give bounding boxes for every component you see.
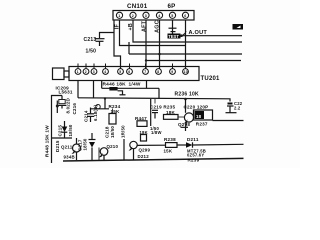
ground bbox=[181, 126, 189, 128]
junction dot A.OUT bbox=[180, 34, 183, 37]
svg-text:C218: C218 bbox=[105, 126, 110, 138]
transistor Q211 bbox=[73, 144, 81, 152]
svg-text:CN101: CN101 bbox=[127, 3, 148, 10]
wire bus A.OUT y35.5 bbox=[182, 35, 243, 37]
svg-text:1: 1 bbox=[77, 70, 79, 74]
wire pin5 to test point bbox=[172, 20, 174, 33]
resistor R235 bbox=[164, 115, 179, 120]
label 1/50 1/8W bbox=[150, 126, 162, 135]
junction R236 bus bbox=[184, 98, 187, 101]
tuner TU201 box bbox=[69, 67, 199, 81]
label IC209 L5631 bbox=[56, 86, 73, 95]
svg-text:6: 6 bbox=[128, 70, 130, 74]
label MTZ7.5B 0Z57.6Y bbox=[187, 149, 206, 158]
transistor Q210 bbox=[100, 148, 108, 156]
capacitor C213 bbox=[95, 38, 105, 40]
net label AGC bbox=[155, 20, 161, 33]
wire bus y60.5 bbox=[146, 60, 241, 62]
svg-text:C220 120P: C220 120P bbox=[184, 105, 209, 110]
wire bus y120.5 bbox=[213, 120, 244, 122]
connector mark (black) top right bbox=[233, 24, 244, 30]
svg-text:8.022D: 8.022D bbox=[66, 98, 71, 113]
transistor Q299 bbox=[130, 141, 137, 148]
svg-text:D212: D212 bbox=[138, 154, 150, 159]
label 6.18B vertical bbox=[93, 105, 98, 121]
resistor R446 bbox=[109, 87, 117, 91]
svg-text:D211: D211 bbox=[187, 137, 199, 142]
label Q210 bbox=[107, 144, 119, 149]
wire x124 bbox=[123, 139, 125, 160]
svg-text:6P: 6P bbox=[168, 3, 176, 10]
junction pin4 bus bbox=[158, 53, 161, 56]
svg-text:1R/50: 1R/50 bbox=[121, 125, 126, 138]
wire pin1 bus y45.5 bbox=[120, 20, 186, 45]
net label +B bbox=[128, 23, 134, 30]
net label IF bbox=[115, 23, 121, 29]
svg-text:1/4W: 1/4W bbox=[129, 82, 141, 88]
tuner pin stubs bbox=[78, 64, 173, 69]
svg-text:4: 4 bbox=[158, 14, 160, 18]
wire Q208 to ground bbox=[186, 122, 187, 128]
svg-text:R237: R237 bbox=[196, 122, 208, 127]
label 18K bbox=[166, 110, 176, 115]
label R348 bbox=[64, 155, 75, 160]
pin 3 bbox=[143, 12, 149, 18]
label Q211 bbox=[61, 145, 73, 150]
svg-text:A.OUT: A.OUT bbox=[189, 30, 208, 36]
wire R234 to bus bbox=[104, 99, 106, 109]
capacitor C222 bbox=[228, 103, 233, 105]
svg-text:5: 5 bbox=[171, 14, 173, 18]
svg-text:Q208: Q208 bbox=[178, 122, 190, 127]
svg-text:18/50: 18/50 bbox=[83, 138, 88, 150]
junction at pin3 bus bbox=[145, 59, 147, 61]
wire y138 bbox=[52, 137, 73, 139]
wire left column bbox=[52, 96, 63, 164]
svg-text:C213: C213 bbox=[84, 37, 97, 43]
wire pin1 branch down to tuner bbox=[114, 20, 121, 69]
wire pin4 down to tuner bbox=[159, 20, 161, 69]
resistor R447 bbox=[137, 121, 147, 127]
svg-text:3: 3 bbox=[93, 70, 95, 74]
svg-text:C219 R235: C219 R235 bbox=[150, 105, 175, 110]
label A.OUT bbox=[189, 30, 208, 36]
svg-text:Q210: Q210 bbox=[107, 144, 119, 149]
small device node bbox=[96, 105, 100, 109]
jack box R237 bbox=[194, 110, 213, 120]
test point bar bbox=[169, 27, 177, 29]
wire bus y145 right bbox=[193, 143, 244, 146]
pin 6 bbox=[182, 12, 188, 18]
transistor Q208 bbox=[184, 113, 193, 122]
svg-text:18: 18 bbox=[196, 114, 202, 119]
svg-text:Q211: Q211 bbox=[61, 145, 73, 150]
svg-text:934B: 934B bbox=[64, 155, 75, 160]
capacitor C216 bbox=[61, 96, 63, 100]
diode D215 symbol bbox=[64, 121, 66, 127]
svg-text:10: 10 bbox=[184, 70, 188, 74]
wire branch bbox=[150, 99, 152, 126]
wire bus R236 y98.5 bbox=[78, 98, 230, 102]
svg-text:2.2: 2.2 bbox=[234, 106, 241, 111]
antenna jack nub bbox=[64, 71, 69, 77]
svg-text:9: 9 bbox=[171, 70, 173, 74]
pin 5 bbox=[169, 12, 175, 18]
capacitor C219 bbox=[154, 99, 156, 104]
wire bbox=[177, 144, 186, 146]
wire bus ground y160 bbox=[63, 158, 244, 161]
svg-text:TEST: TEST bbox=[168, 34, 179, 39]
arrowhead to A.OUT bbox=[182, 31, 187, 36]
svg-text:7: 7 bbox=[144, 70, 146, 74]
resistor 18K bbox=[141, 135, 147, 142]
label D215 vertical bbox=[55, 140, 60, 152]
label C215 18/50 vertical bbox=[58, 125, 63, 137]
wire bus y54 bbox=[129, 53, 242, 55]
svg-text:Q299: Q299 bbox=[139, 147, 151, 152]
node stub bbox=[56, 101, 58, 114]
svg-text:15K: 15K bbox=[164, 149, 173, 154]
wire to Q208 bbox=[185, 99, 187, 113]
net label AFT bbox=[141, 20, 147, 32]
svg-text:6: 6 bbox=[184, 14, 186, 18]
wire jog to shield stub bbox=[118, 91, 123, 95]
svg-text:18/50: 18/50 bbox=[68, 124, 73, 136]
label C220 120P bbox=[184, 105, 209, 110]
svg-text:R446 18K: R446 18K bbox=[103, 82, 127, 88]
pin 2 bbox=[130, 12, 136, 18]
svg-text:L5631: L5631 bbox=[59, 89, 73, 94]
label C217 18/50 vertical bbox=[78, 139, 83, 151]
wire C213 branch bbox=[100, 33, 115, 39]
svg-text:2: 2 bbox=[132, 14, 134, 18]
label C216 vertical bbox=[72, 103, 77, 115]
tuner pin circles bbox=[75, 69, 188, 75]
label C214 vertical bbox=[84, 110, 89, 122]
wire bus y145 bbox=[137, 144, 166, 146]
svg-text:18/50: 18/50 bbox=[110, 126, 115, 138]
label C219 R235 bbox=[150, 105, 175, 110]
svg-text:8: 8 bbox=[157, 70, 159, 74]
label R.022 vertical bbox=[66, 98, 71, 113]
svg-text:D215: D215 bbox=[55, 140, 60, 152]
svg-text:3: 3 bbox=[145, 14, 147, 18]
label D212 bbox=[138, 154, 150, 159]
svg-text:5: 5 bbox=[119, 70, 121, 74]
label 18K small bbox=[140, 130, 148, 135]
label R236 10K bbox=[175, 91, 199, 97]
connector CN101 bbox=[113, 11, 194, 21]
pin numbers bbox=[118, 14, 186, 18]
test pad TEST bbox=[171, 31, 176, 33]
svg-text:TU201: TU201 bbox=[201, 76, 221, 82]
label R234 15K bbox=[109, 104, 121, 114]
label R447 bbox=[135, 116, 147, 121]
wire pin3 down to tuner with bus tee bbox=[145, 20, 147, 69]
svg-text:1: 1 bbox=[118, 14, 120, 18]
wire tuner to R446 bbox=[101, 81, 103, 89]
svg-text:2: 2 bbox=[85, 70, 87, 74]
wire pin6 down to tuner bbox=[185, 20, 187, 69]
label 6P bbox=[168, 3, 176, 10]
wire y108.8 bbox=[91, 108, 109, 110]
svg-text:R236 10K: R236 10K bbox=[175, 91, 199, 97]
label CN101 bbox=[127, 3, 148, 10]
svg-text:C215: C215 bbox=[58, 125, 63, 137]
capacitor C214 bbox=[90, 108, 92, 114]
pin 4 bbox=[156, 12, 162, 18]
svg-text:4: 4 bbox=[104, 70, 106, 74]
antenna jack bbox=[53, 68, 65, 80]
svg-text:R239: R239 bbox=[188, 158, 200, 163]
capacitor C217 bbox=[91, 133, 93, 139]
svg-text:R448 15K 1W: R448 15K 1W bbox=[45, 125, 50, 157]
svg-text:C216: C216 bbox=[72, 103, 77, 115]
svg-text:1/50: 1/50 bbox=[86, 49, 97, 55]
test pad label bbox=[168, 34, 179, 39]
label C218 18/50 vertical bbox=[105, 126, 110, 138]
label R239 bbox=[188, 158, 200, 163]
svg-text:1/8W: 1/8W bbox=[151, 130, 162, 135]
pin 1 bbox=[116, 12, 122, 18]
resistor R234 bbox=[109, 114, 116, 125]
wire y88.3 bbox=[102, 87, 159, 89]
svg-text:C214: C214 bbox=[84, 110, 89, 122]
label R448 15K 1W vertical bbox=[45, 125, 50, 157]
svg-text:R238: R238 bbox=[164, 137, 176, 142]
diode D211 bbox=[186, 142, 193, 147]
resistor R238 bbox=[166, 143, 178, 148]
wire pin2 bus y42 bbox=[133, 20, 242, 42]
label R446 18K 1/4W bbox=[103, 82, 141, 88]
